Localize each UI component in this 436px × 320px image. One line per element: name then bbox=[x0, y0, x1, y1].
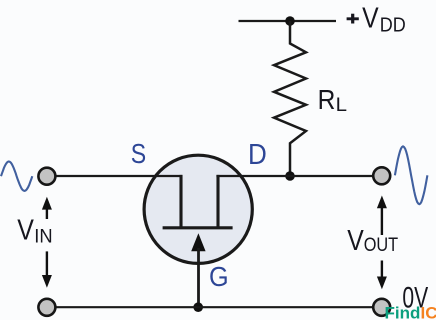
wire 0V bottom rail bbox=[55, 306, 373, 308]
svg-text:R: R bbox=[318, 83, 336, 115]
wire +VDD top rail bbox=[239, 20, 337, 22]
label VOUT bbox=[347, 224, 398, 256]
input sine waveform bbox=[1, 162, 32, 191]
svg-text:V: V bbox=[362, 2, 379, 34]
label +VDD plus sign bbox=[347, 14, 359, 24]
svg-text:S: S bbox=[131, 139, 146, 169]
terminal input bottom bbox=[38, 299, 55, 316]
label RL bbox=[318, 83, 347, 115]
svg-text:V: V bbox=[347, 224, 364, 256]
svg-text:Find: Find bbox=[385, 304, 421, 320]
transistor Q1 gate arrow bbox=[191, 233, 205, 251]
svg-text:OUT: OUT bbox=[364, 234, 399, 255]
svg-text:D: D bbox=[248, 138, 267, 170]
svg-text:DD: DD bbox=[380, 15, 406, 37]
label VIN bbox=[17, 214, 52, 247]
arrow VOUT down bbox=[377, 261, 387, 290]
node gate junction on 0V rail bbox=[193, 302, 203, 312]
arrow VOUT up bbox=[377, 196, 387, 236]
svg-text:IC: IC bbox=[421, 304, 436, 320]
terminal output top bbox=[373, 167, 390, 184]
output sine waveform bbox=[395, 146, 428, 204]
node VDD junction bbox=[285, 16, 295, 26]
wire gate lead to 0V rail bbox=[197, 248, 200, 307]
resistor RL bbox=[274, 21, 306, 176]
transistor Q1 MOSFET body bbox=[144, 155, 252, 263]
terminal input top bbox=[38, 168, 55, 185]
transistor Q1 source drop bbox=[179, 175, 182, 229]
svg-text:IN: IN bbox=[34, 225, 52, 246]
transistor Q1 drain drop bbox=[216, 175, 219, 229]
svg-text:L: L bbox=[336, 94, 347, 115]
label VDD bbox=[362, 2, 406, 37]
svg-text:V: V bbox=[17, 214, 34, 246]
svg-text:G: G bbox=[209, 261, 229, 292]
watermark FindIC bbox=[385, 304, 436, 320]
transistor Q1 channel bar bbox=[163, 226, 233, 229]
terminal output bottom bbox=[373, 299, 390, 316]
wire output row (drain side) bbox=[216, 175, 373, 177]
arrow VIN up bbox=[42, 197, 52, 219]
wire input row (source side) bbox=[55, 175, 183, 177]
node drain junction bbox=[285, 171, 295, 181]
arrow VIN down bbox=[42, 251, 52, 287]
